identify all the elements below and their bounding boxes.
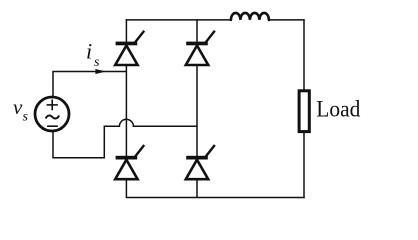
svg-text:Load: Load: [316, 97, 360, 123]
minus sign inside source: [47, 125, 58, 127]
wire: source bottom lead with step to right bridge midpoint (with hop): [53, 119, 197, 157]
wire: right rail (top-right corner down to bottom-right corner): [303, 19, 305, 198]
svg-text:s: s: [23, 110, 29, 125]
arrowhead: is current direction: [95, 69, 106, 74]
load resistor box: [299, 91, 309, 132]
ac source vs (circle): [35, 97, 69, 131]
wire: bottom rail: [126, 197, 305, 199]
wire: left bridge leg (vertical): [125, 19, 127, 197]
svg-text:i: i: [86, 39, 92, 64]
thyristor T1 (upper left): [115, 31, 144, 65]
wire: top rail right (inductor to top-right corner): [269, 19, 305, 21]
thyristor T4 (lower left): [115, 145, 144, 179]
svg-text:v: v: [13, 95, 23, 119]
inductor L (4 humps): [231, 13, 269, 20]
thyristor T3 (upper right): [186, 31, 215, 65]
wire: source top lead to left bridge midpoint: [53, 72, 126, 98]
plus sign inside source: [47, 100, 58, 111]
wire: top rail left (bridge top to inductor): [126, 19, 231, 21]
tilde (ac waveform) inside source: [46, 115, 59, 118]
thyristor T2 (lower right): [186, 145, 215, 179]
wire: right bridge leg (vertical): [196, 19, 198, 197]
svg-text:s: s: [94, 55, 100, 70]
